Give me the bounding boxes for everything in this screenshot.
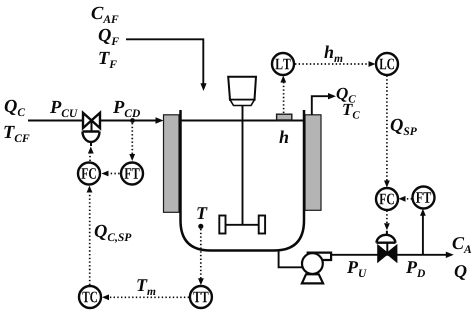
signal level sensor to LT [280, 76, 286, 114]
valve V2 product control valve [376, 231, 396, 261]
instrument FC1 flow controller [78, 163, 100, 185]
label P_D downstream pressure [406, 261, 425, 277]
wire coolant inlet pipe [28, 117, 164, 123]
node junction dot on coolant pipe [130, 118, 135, 123]
instrument FT2 flow transmitter [413, 187, 435, 209]
signal LT to LC [295, 61, 376, 67]
label Q_C,SP coolant setpoint [95, 225, 132, 243]
stirrer shaft [242, 106, 244, 225]
level sensor float h [277, 114, 292, 120]
wire product pipe to valve and outlet [331, 252, 454, 258]
label Q_SP flow setpoint [391, 119, 417, 135]
impeller left blade [219, 216, 225, 234]
label T_CF coolant inlet temperature [4, 126, 29, 142]
wire coolant outlet pipe [312, 93, 336, 115]
pump P1 [302, 253, 331, 284]
signal TC to FC1 [87, 186, 93, 286]
signal FT1 to FC1 [102, 171, 120, 177]
signal LC to FC2 [384, 76, 390, 188]
label T_F feed temperature [99, 52, 117, 68]
label P_U upstream pressure [347, 261, 367, 277]
instrument FT1 flow transmitter [121, 163, 143, 185]
node T temperature probe dot [198, 224, 203, 229]
valve V1 coolant control valve [83, 113, 101, 146]
label h_m measured level [324, 46, 342, 63]
label h level [279, 131, 288, 144]
jacket left gray [164, 115, 180, 213]
instrument LT level transmitter [272, 53, 294, 75]
label P_CD downstream pressure [113, 101, 140, 117]
label P_CU upstream pressure [50, 101, 78, 117]
signal FT2 to FC2 [399, 196, 413, 202]
tank reactor vessel outline [181, 110, 305, 251]
label Q_F feed flow [99, 29, 119, 45]
impeller right blade [259, 216, 265, 234]
label T_m measured temperature [137, 279, 155, 295]
label Q product flow [455, 265, 467, 280]
signal T probe to TT [198, 229, 204, 285]
wire drain pipe from tank to pump [279, 249, 303, 267]
stirrer motor [228, 77, 256, 106]
label T temperature [197, 207, 207, 219]
instrument TC temperature controller [79, 286, 101, 308]
jacket right gray [305, 115, 321, 211]
label C_AF feed concentration [92, 7, 119, 23]
signal pressure tap to FT1 [129, 123, 135, 161]
instrument FC2 flow controller [376, 188, 398, 210]
label T_C coolant outlet temperature [343, 104, 360, 119]
wire feed stream line into reactor [126, 39, 207, 91]
signal FC2 to valve V2 [384, 211, 390, 231]
label C_A product concentration [453, 237, 472, 253]
signal pressure tap to FT2 [420, 209, 426, 255]
signal FC1 to valve V1 [88, 147, 94, 162]
instrument TT temperature transmitter [190, 286, 212, 308]
label Q_C coolant inlet flow [5, 100, 25, 116]
label Q_C coolant outlet flow [337, 88, 356, 103]
instrument LC level controller [376, 53, 398, 75]
liquid surface line [181, 120, 305, 122]
impeller crossbar [224, 224, 261, 226]
signal TT to TC [102, 294, 189, 300]
